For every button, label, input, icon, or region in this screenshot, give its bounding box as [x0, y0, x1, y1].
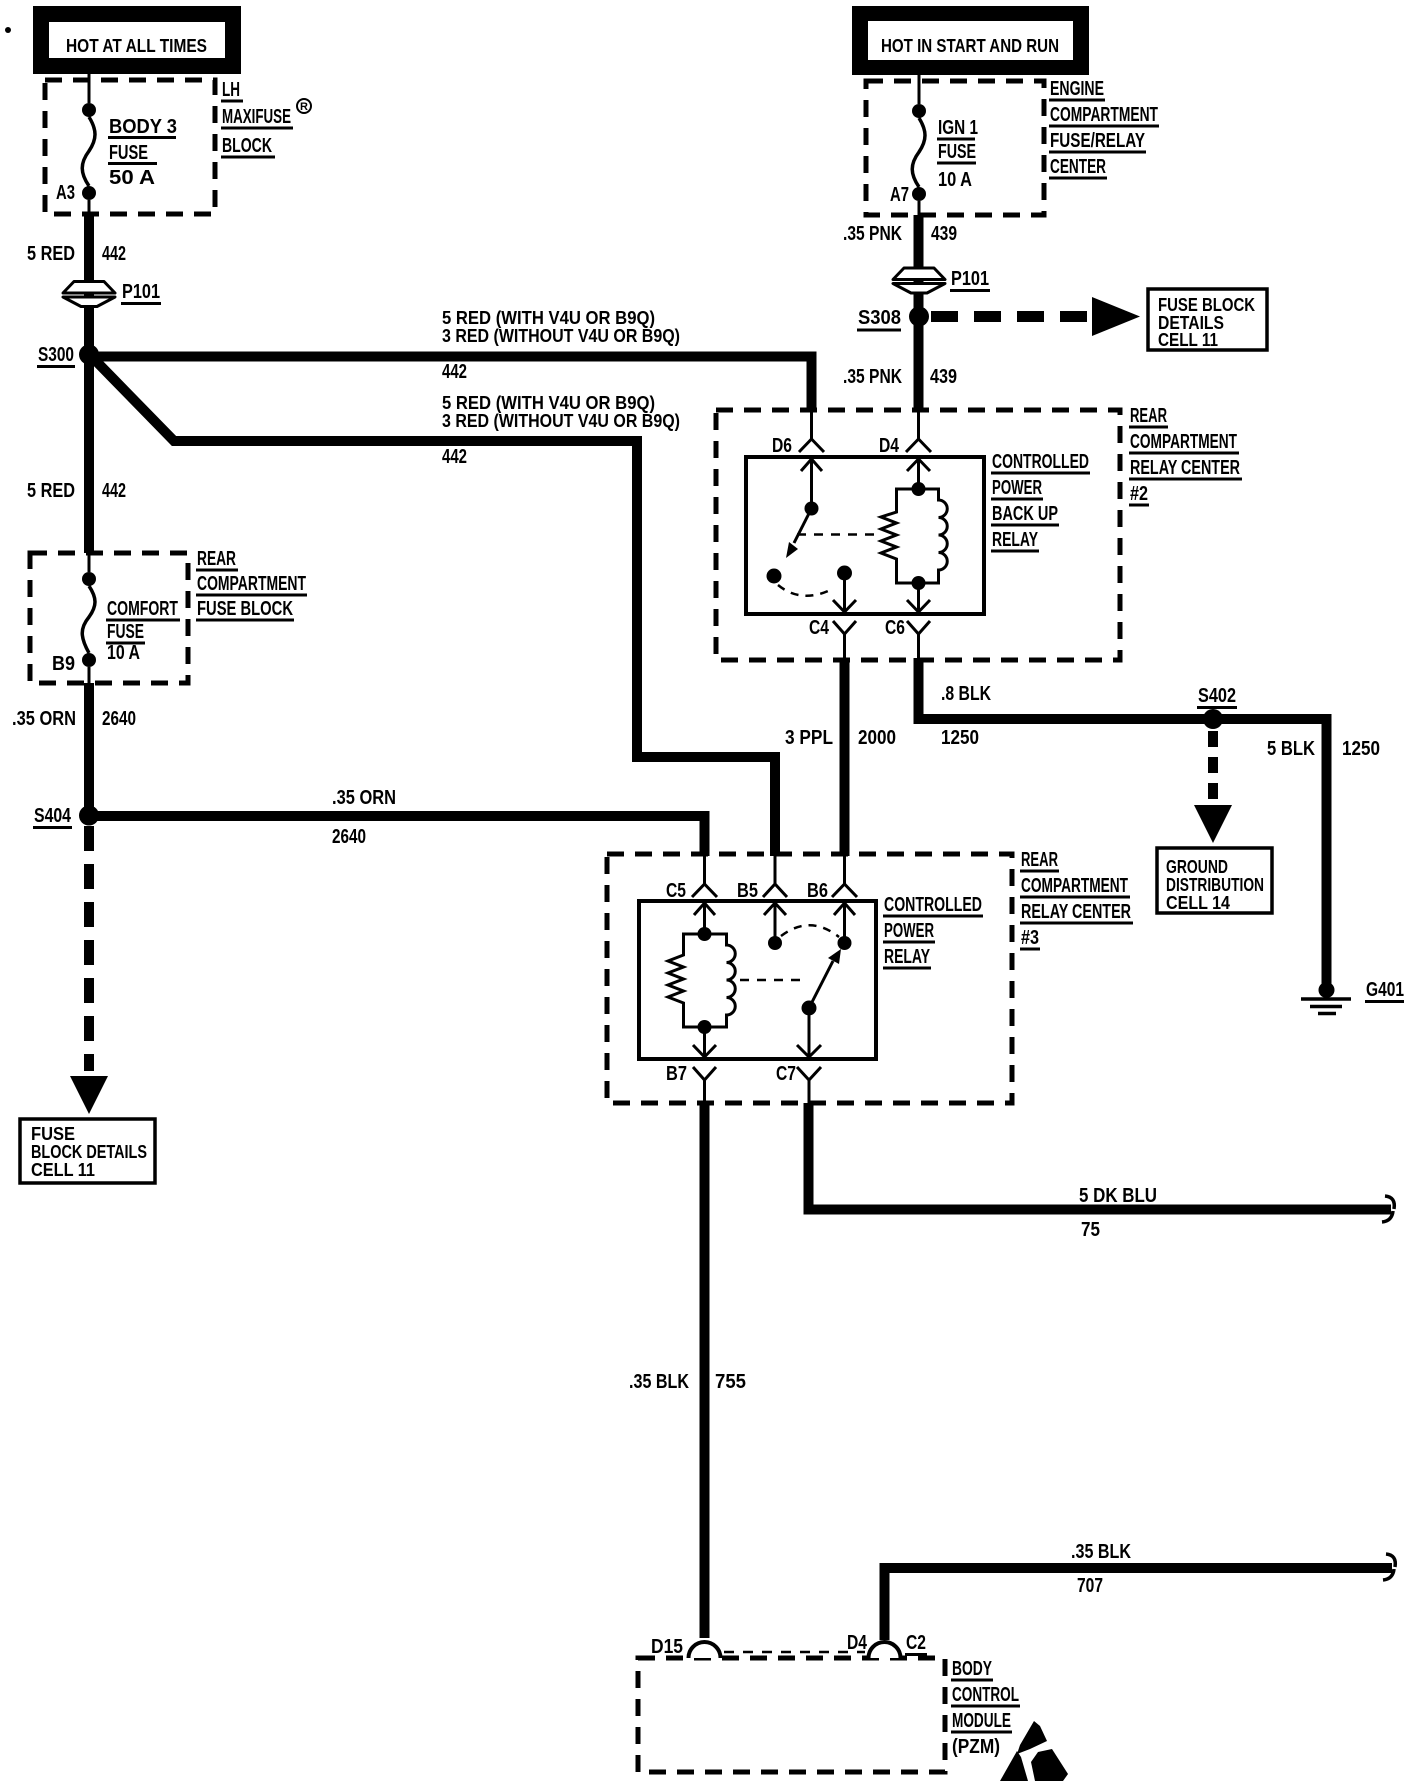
svg-text:755: 755	[715, 1371, 746, 1393]
wire 442 left main upper	[84, 215, 94, 553]
svg-text:RELAY: RELAY	[884, 946, 930, 968]
svg-text:COMFORT: COMFORT	[107, 598, 178, 620]
wire 2000 C4 to B6	[840, 658, 850, 856]
svg-text:ENGINE: ENGINE	[1050, 78, 1104, 100]
relay U2 inner box	[746, 457, 984, 614]
pin C4	[809, 617, 856, 658]
label 5 RED 442 lower	[27, 480, 126, 502]
wire 2640 left	[84, 683, 94, 815]
wire feed to Body 3 fuse	[88, 74, 91, 103]
arrow down to ground distribution	[1194, 805, 1232, 843]
relay U2 coil link dashed	[797, 533, 877, 536]
label LH MAXIFUSE(R) BLOCK	[221, 79, 311, 157]
splice S404	[79, 806, 99, 826]
wire .35 ORN 2640 to C5	[89, 811, 710, 856]
svg-text:.35 PNK: .35 PNK	[843, 366, 902, 388]
ESD symbol	[1000, 1721, 1068, 1781]
svg-text:IGN 1: IGN 1	[938, 117, 978, 139]
dashed wire S308 to fuse block details	[931, 311, 1090, 322]
svg-text:C2: C2	[906, 1632, 926, 1654]
svg-text:FUSE/RELAY: FUSE/RELAY	[1050, 130, 1146, 152]
box FUSE BLOCK DETAILS CELL 11 (right)	[1148, 289, 1267, 350]
svg-text:CONTROLLED: CONTROLLED	[884, 894, 982, 916]
svg-text:5 BLK: 5 BLK	[1267, 738, 1315, 760]
label 3 PPL 2000	[785, 727, 896, 749]
svg-text:FUSE: FUSE	[109, 142, 148, 164]
wire 442 branch 2 to B5	[92, 357, 780, 856]
dashed wire S402 to ground distribution	[1208, 731, 1218, 801]
dashed pin strip D15 to D4	[724, 1651, 865, 1654]
connector P101 left	[63, 282, 115, 307]
svg-text:5 DK BLU: 5 DK BLU	[1079, 1185, 1157, 1207]
wire 1250 C6 to ground	[914, 658, 1332, 984]
pin D4	[879, 410, 931, 457]
svg-text:COMPARTMENT: COMPARTMENT	[197, 573, 306, 595]
svg-text:D6: D6	[772, 435, 792, 457]
label COMFORT FUSE 10 A	[106, 598, 180, 664]
svg-text:2000: 2000	[858, 727, 896, 749]
relay U3 switch swing dashed arc	[781, 925, 839, 937]
header box HOT IN START AND RUN	[852, 6, 1089, 75]
pin B6	[807, 856, 857, 902]
wire 707 BCM D4 to right	[880, 1563, 1393, 1640]
svg-text:DISTRIBUTION: DISTRIBUTION	[1166, 875, 1264, 895]
label .35 PNK 439 upper	[843, 223, 957, 245]
svg-text:CELL 11: CELL 11	[31, 1160, 95, 1180]
fuse IGN 1 10A	[912, 104, 926, 215]
dashed wire S404 to fuse block details	[84, 826, 94, 1071]
svg-text:S402: S402	[1198, 685, 1236, 707]
relay U2 switch arm	[767, 509, 812, 584]
splice S300	[79, 345, 99, 365]
rear compartment relay center 2 dashed box	[716, 410, 1120, 660]
label .35 BLK 707	[1071, 1541, 1131, 1597]
svg-text:#3: #3	[1021, 927, 1039, 949]
svg-text:B5: B5	[737, 880, 758, 902]
svg-text:5 RED: 5 RED	[27, 480, 75, 502]
svg-text:BACK UP: BACK UP	[992, 503, 1058, 525]
svg-text:REAR: REAR	[1021, 849, 1058, 871]
relay U2 switch swing dashed arc	[778, 585, 828, 596]
label S300	[37, 344, 75, 367]
pin label C2	[905, 1632, 927, 1655]
svg-text:50 A: 50 A	[109, 167, 155, 189]
pin D6	[772, 410, 824, 457]
svg-text:CENTER: CENTER	[1050, 156, 1106, 178]
wire 755 B7 to D15	[700, 1103, 710, 1638]
svg-text:REAR: REAR	[1130, 405, 1167, 427]
label P101 left	[121, 281, 161, 304]
label REAR COMPARTMENT FUSE BLOCK	[196, 548, 307, 620]
svg-text:C5: C5	[666, 880, 686, 902]
label .35 BLK 755	[629, 1371, 746, 1393]
hook arrow wire 707	[1383, 1554, 1395, 1580]
label 5 RED / 3 RED branch 2	[442, 393, 680, 468]
svg-text:B9: B9	[52, 653, 75, 675]
svg-text:G401: G401	[1366, 979, 1404, 1001]
relay U3 inner box	[639, 901, 876, 1059]
label BODY 3 FUSE 50 A	[108, 116, 177, 189]
svg-text:10 A: 10 A	[938, 169, 972, 191]
relay U2 coil assembly	[881, 482, 947, 590]
label G401	[1365, 979, 1404, 1002]
svg-text:B6: B6	[807, 880, 828, 902]
svg-text:5 RED (WITH V4U OR B9Q): 5 RED (WITH V4U OR B9Q)	[442, 393, 655, 413]
svg-text:(PZM): (PZM)	[952, 1736, 1000, 1758]
relay U3 switch arm	[802, 949, 842, 1016]
svg-text:POWER: POWER	[884, 920, 934, 942]
label .8 BLK 1250	[941, 683, 991, 749]
LH Maxifuse block dashed box	[45, 80, 215, 214]
wire 75 C7 to right	[804, 1103, 1392, 1215]
relay U2 switch input arrow from D6	[801, 459, 822, 516]
fuse COMFORT 10A	[82, 553, 96, 683]
svg-text:D4: D4	[847, 1632, 868, 1654]
label 5 DK BLU 75	[1079, 1185, 1157, 1241]
splice S402	[1203, 709, 1223, 729]
label S404	[33, 805, 72, 828]
label .35 PNK 439 lower	[843, 366, 957, 388]
pin D15 connector arc	[651, 1636, 721, 1658]
label REAR COMPARTMENT RELAY CENTER #2	[1129, 405, 1242, 505]
svg-text:BLOCK DETAILS: BLOCK DETAILS	[31, 1142, 147, 1162]
svg-text:707: 707	[1077, 1575, 1103, 1597]
svg-text:C6: C6	[885, 617, 905, 639]
label CONTROLLED POWER RELAY	[883, 894, 983, 968]
relay U3 coil assembly	[668, 927, 735, 1034]
svg-text:3 RED (WITHOUT V4U OR B9Q): 3 RED (WITHOUT V4U OR B9Q)	[442, 411, 680, 431]
svg-text:POWER: POWER	[992, 477, 1042, 499]
svg-text:A7: A7	[890, 184, 909, 206]
svg-text:BLOCK: BLOCK	[222, 135, 272, 157]
svg-text:CELL 11: CELL 11	[1158, 330, 1218, 350]
svg-text:1250: 1250	[941, 727, 979, 749]
svg-text:.35 ORN: .35 ORN	[332, 787, 396, 809]
svg-text:3 PPL: 3 PPL	[785, 727, 833, 749]
svg-text:COMPARTMENT: COMPARTMENT	[1130, 431, 1237, 453]
svg-text:75: 75	[1081, 1219, 1100, 1241]
relay U2 coil input arrow from D4	[907, 459, 930, 489]
label S402	[1197, 685, 1237, 708]
arrow right to fuse block details	[1092, 297, 1140, 336]
label BODY CONTROL MODULE (PZM)	[951, 1658, 1020, 1758]
svg-text:.35 BLK: .35 BLK	[1071, 1541, 1131, 1563]
pin C6	[885, 617, 930, 658]
splice S308	[909, 307, 929, 327]
svg-text:FUSE BLOCK: FUSE BLOCK	[197, 598, 293, 620]
relay U2 coil output to C6	[907, 583, 930, 612]
svg-text:CONTROLLED: CONTROLLED	[992, 451, 1089, 473]
svg-text:FUSE BLOCK: FUSE BLOCK	[1158, 295, 1255, 315]
svg-text:.35 BLK: .35 BLK	[629, 1371, 689, 1393]
svg-text:COMPARTMENT: COMPARTMENT	[1050, 104, 1158, 126]
svg-text:RELAY: RELAY	[992, 529, 1038, 551]
svg-text:RELAY CENTER: RELAY CENTER	[1021, 901, 1131, 923]
label 5 BLK 1250	[1267, 738, 1380, 760]
svg-text:HOT AT ALL TIMES: HOT AT ALL TIMES	[66, 36, 207, 56]
svg-text:CONTROL: CONTROL	[952, 1684, 1019, 1706]
label CONTROLLED POWER BACK UP RELAY	[991, 451, 1090, 551]
relay U3 coil link dashed	[740, 979, 800, 982]
speck	[5, 27, 11, 33]
svg-text:BODY 3: BODY 3	[109, 116, 177, 138]
wire 442 branch 1 to D6	[89, 352, 812, 411]
svg-text:COMPARTMENT: COMPARTMENT	[1021, 875, 1128, 897]
label 5 RED 442	[27, 243, 126, 265]
svg-text:.35 PNK: .35 PNK	[843, 223, 902, 245]
wire 439 upper	[914, 215, 924, 410]
label REAR COMPARTMENT RELAY CENTER #3	[1020, 849, 1133, 949]
arrow down to fuse block details	[70, 1076, 108, 1114]
relay U3 input arrow from B5	[764, 903, 786, 950]
svg-text:S404: S404	[34, 805, 72, 827]
svg-text:LH: LH	[222, 79, 240, 101]
svg-text:442: 442	[102, 243, 126, 265]
svg-text:442: 442	[442, 446, 467, 468]
pin D4 connector arc	[847, 1632, 901, 1658]
pin C5	[666, 856, 717, 902]
svg-text:MODULE: MODULE	[952, 1710, 1011, 1732]
svg-text:CELL 14: CELL 14	[1166, 893, 1230, 913]
svg-text:C7: C7	[776, 1063, 796, 1085]
svg-text:S300: S300	[38, 344, 74, 366]
rear compartment fuse block dashed box	[30, 553, 188, 683]
svg-text:#2: #2	[1130, 483, 1148, 505]
svg-text:2640: 2640	[102, 708, 136, 730]
relay U3 coil output to B7	[693, 1027, 716, 1057]
svg-text:D4: D4	[879, 435, 900, 457]
box FUSE BLOCK DETAILS CELL 11 (left)	[20, 1119, 155, 1183]
label ENGINE COMPARTMENT FUSE/RELAY CENTER	[1049, 78, 1159, 178]
svg-text:.35 ORN: .35 ORN	[12, 708, 76, 730]
svg-text:.8 BLK: .8 BLK	[941, 683, 991, 705]
body control module dashed box	[638, 1658, 945, 1772]
pin B5	[737, 856, 787, 902]
svg-text:P101: P101	[122, 281, 160, 303]
svg-text:REAR: REAR	[197, 548, 236, 570]
label S308	[857, 307, 901, 330]
svg-text:FUSE: FUSE	[107, 621, 144, 643]
label .35 ORN 2640	[12, 708, 136, 730]
svg-text:1250: 1250	[1342, 738, 1380, 760]
svg-text:439: 439	[930, 366, 957, 388]
svg-text:442: 442	[102, 480, 126, 502]
pin B7	[666, 1063, 716, 1103]
svg-text:A3: A3	[56, 182, 75, 204]
svg-text:439: 439	[931, 223, 957, 245]
box GROUND DISTRIBUTION CELL 14	[1157, 848, 1272, 913]
svg-text:P101: P101	[951, 268, 989, 290]
svg-text:D15: D15	[651, 1636, 683, 1658]
relay U2 common contact to C4	[833, 566, 856, 613]
svg-text:BODY: BODY	[952, 1658, 992, 1680]
svg-text:5 RED: 5 RED	[27, 243, 75, 265]
ground G401	[1301, 982, 1351, 1014]
svg-text:GROUND: GROUND	[1166, 857, 1228, 877]
svg-text:442: 442	[442, 361, 467, 383]
pin C7	[776, 1063, 821, 1103]
rear compartment relay center 3 dashed box	[607, 854, 1012, 1103]
svg-text:B7: B7	[666, 1063, 687, 1085]
relay U3 input arrow from B6	[834, 903, 855, 950]
svg-text:3 RED (WITHOUT V4U OR B9Q): 3 RED (WITHOUT V4U OR B9Q)	[442, 326, 680, 346]
header box HOT AT ALL TIMES	[33, 6, 241, 74]
relay U3 coil input arrow from C5	[694, 903, 715, 934]
svg-text:R: R	[300, 101, 308, 113]
svg-text:FUSE: FUSE	[938, 141, 976, 163]
label 5 RED / 3 RED branch 1	[442, 308, 680, 383]
connector P101 right	[893, 268, 945, 293]
svg-text:MAXIFUSE: MAXIFUSE	[222, 106, 291, 128]
label P101 right	[950, 268, 990, 291]
svg-text:2640: 2640	[332, 826, 366, 848]
hook arrow wire 75	[1382, 1196, 1394, 1222]
svg-text:C4: C4	[809, 617, 830, 639]
engine compartment fuse center dashed box	[866, 81, 1044, 215]
label IGN 1 FUSE 10 A	[937, 117, 978, 191]
svg-text:HOT IN START AND RUN: HOT IN START AND RUN	[881, 36, 1059, 56]
svg-text:RELAY CENTER: RELAY CENTER	[1130, 457, 1240, 479]
svg-text:5 RED (WITH V4U OR B9Q): 5 RED (WITH V4U OR B9Q)	[442, 308, 655, 328]
relay U3 switch output to C7	[797, 1008, 821, 1057]
svg-text:10 A: 10 A	[107, 642, 140, 664]
fuse BODY 3 50A	[82, 103, 96, 215]
svg-text:FUSE: FUSE	[31, 1124, 75, 1144]
svg-text:S308: S308	[858, 307, 901, 329]
wire feed to IGN 1 fuse	[918, 75, 921, 104]
